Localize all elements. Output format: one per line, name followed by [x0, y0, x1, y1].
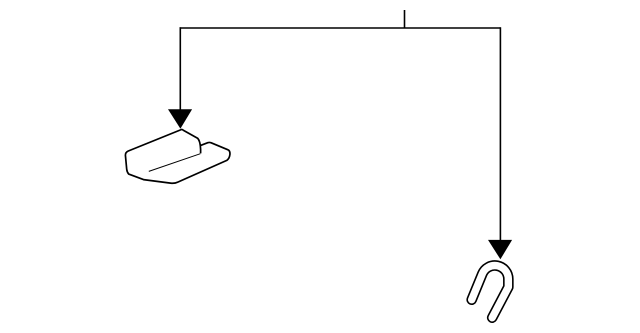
part: left wedge clip outline [125, 129, 230, 183]
wire: left vertical leader [179, 27, 181, 110]
part: left clip crease line [149, 154, 201, 172]
wire: horizontal leader line [180, 27, 501, 29]
arrowhead to right part [488, 240, 512, 259]
leader tick at top center [404, 10, 406, 28]
part: right U spring clip [472, 265, 509, 317]
arrowhead to left part [168, 109, 192, 128]
wire: right vertical leader [499, 27, 501, 240]
part: left clip fold right edge [199, 146, 201, 154]
